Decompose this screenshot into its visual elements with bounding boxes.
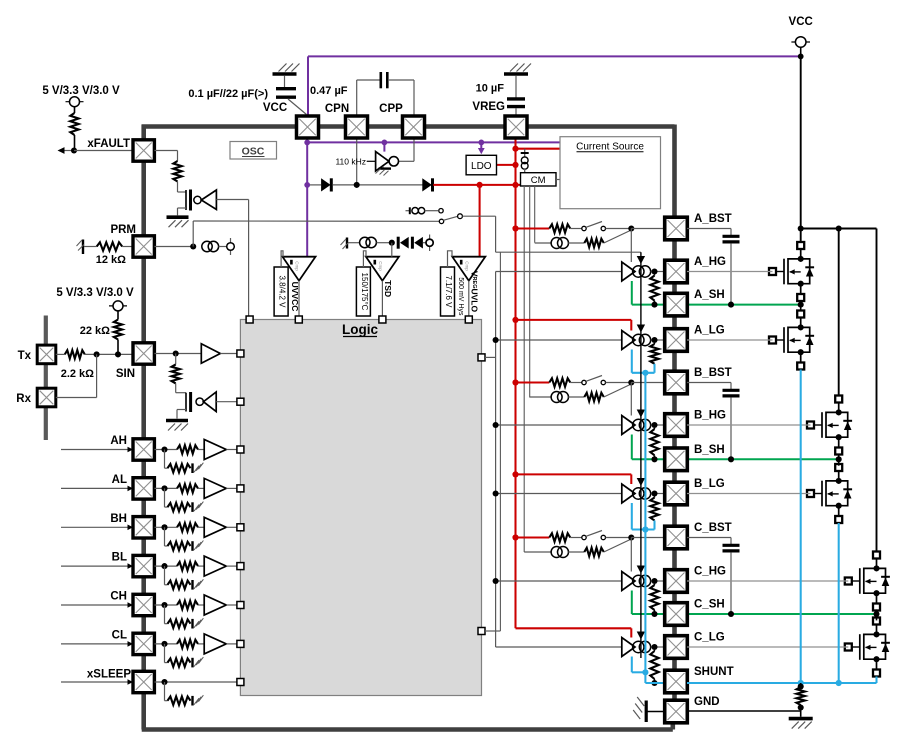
pulldown resistor AL <box>165 488 191 511</box>
wire red feed B_BST <box>516 381 550 383</box>
port BH <box>237 524 244 531</box>
sense resistor <box>797 683 805 705</box>
pulldown resistor CL <box>165 644 191 667</box>
junction xSLEEP <box>161 679 167 685</box>
wire driver input bus <box>495 272 497 648</box>
wire TSD input <box>391 243 393 257</box>
label PRM <box>110 224 136 236</box>
gate driver A_LG <box>622 331 664 350</box>
junction C_SH resistor <box>651 611 657 617</box>
series resistor BH <box>177 523 198 531</box>
junction purple at LDO <box>478 140 484 146</box>
pin B_HG <box>665 414 688 437</box>
wire charge pump row <box>307 184 423 186</box>
wire shunt bus right <box>687 677 877 684</box>
svg-text:xSLEEP: xSLEEP <box>87 669 131 681</box>
wire gate B_LG <box>687 493 811 495</box>
wire purple branch arrow to LDO <box>478 142 485 154</box>
junction input bus C_HG <box>493 578 499 584</box>
junction sense bottom <box>798 704 804 710</box>
input buffer AH <box>198 440 237 460</box>
junction red 1 <box>512 146 518 152</box>
flying capacitor CPN-CPP <box>357 72 414 116</box>
junction B_BST <box>628 379 634 385</box>
label 10uF <box>476 83 505 95</box>
label SHUNT <box>694 666 734 678</box>
wire bootstrap cap top <box>687 229 731 236</box>
junction red UVLO branch <box>477 182 483 188</box>
junction AH <box>161 446 167 452</box>
svg-text:B_SH: B_SH <box>694 444 725 456</box>
wire PRM internal <box>154 246 193 248</box>
wire blue shunt bus <box>645 373 664 683</box>
pin BL <box>133 555 154 576</box>
wire input BH <box>61 525 133 531</box>
VCC decoupling ground <box>273 64 300 75</box>
label A_HG <box>694 256 726 268</box>
junction midpoint B <box>836 456 842 462</box>
label 0.47uF <box>310 85 348 97</box>
wire midpoint C <box>876 609 878 620</box>
svg-text:CPN: CPN <box>325 103 349 115</box>
wire red LDO link <box>497 164 516 166</box>
junction blue B_LG <box>642 526 648 532</box>
series resistor AL <box>177 484 198 492</box>
junction diode row CPN <box>354 182 360 188</box>
svg-text:SHUNT: SHUNT <box>694 666 734 678</box>
pin A_SH <box>665 293 688 316</box>
wire SIN internal <box>154 353 201 355</box>
wire CPN to diode junction <box>356 138 358 185</box>
label CPN <box>325 103 349 115</box>
wire inverter input from logic <box>248 200 250 320</box>
resistor C_BST charge <box>549 533 570 541</box>
port logic right 1 <box>478 354 485 361</box>
wire CM output 1 <box>523 186 525 552</box>
svg-text:BH: BH <box>110 513 127 525</box>
svg-text:Cmp: Cmp <box>464 261 469 271</box>
wire red to VREG UVLO comparator <box>479 185 481 257</box>
svg-text:5 V/3.3 V/3.0 V: 5 V/3.3 V/3.0 V <box>42 85 120 97</box>
label CPP <box>379 103 403 115</box>
capacitor 10uF at VREG <box>507 76 525 116</box>
wire Tx to SIN pin <box>85 353 133 355</box>
label CH <box>110 591 127 603</box>
label Rx <box>16 393 31 405</box>
SIN pulldown transistor Q5 <box>177 392 191 419</box>
wire B_LG blue elbow <box>632 503 655 530</box>
input buffer AL <box>198 478 237 498</box>
svg-text:C_BST: C_BST <box>694 522 732 534</box>
wire input A_HG <box>496 271 622 273</box>
junction SIN pullup <box>115 351 121 357</box>
svg-text:7.1/7.6 V: 7.1/7.6 V <box>444 275 453 308</box>
wire input C_LG <box>496 646 622 648</box>
comparator VREG UVLO <box>441 251 486 320</box>
pin CH <box>133 594 154 615</box>
switch A_BST <box>570 222 629 231</box>
junction drain rail B <box>836 225 842 231</box>
junction red C_BST <box>512 534 518 540</box>
pin BH <box>133 517 154 538</box>
svg-text:2.2 kΩ: 2.2 kΩ <box>61 368 94 380</box>
label B_BST <box>694 367 732 379</box>
svg-text:B_BST: B_BST <box>694 367 732 379</box>
resistor A_LG gate-source <box>650 343 658 364</box>
wire switch to charge rail <box>496 216 641 252</box>
label A_LG <box>694 325 725 337</box>
input buffer CL <box>198 634 237 654</box>
junction C_LG resistor shunt <box>651 680 657 686</box>
port UVVCC output <box>295 316 302 323</box>
arrow charge rail <box>637 566 645 574</box>
port SIN buffer <box>237 350 244 357</box>
label GND <box>694 696 720 708</box>
wire CM to current source B_BST <box>530 396 552 398</box>
comparator UVVCC <box>274 251 315 320</box>
label xSLEEP <box>87 669 131 681</box>
port CL <box>237 640 244 647</box>
label 110 kHz <box>335 157 366 167</box>
label B_LG <box>694 478 725 490</box>
port logic right 2 <box>478 628 485 635</box>
gate driver A_HG <box>622 262 664 281</box>
TSD input ground <box>341 238 349 250</box>
port SIN inverter <box>237 398 244 405</box>
junction red A_BST <box>512 225 518 231</box>
label 2.2 kOhm <box>61 368 94 380</box>
svg-text:AL: AL <box>112 474 127 486</box>
pin Rx <box>37 388 56 407</box>
series resistor CH <box>177 601 198 609</box>
label C_HG <box>694 566 726 578</box>
wire source A blue <box>800 370 802 684</box>
svg-text:xFAULT: xFAULT <box>87 138 130 150</box>
wire gate A_HG <box>687 271 773 273</box>
junction purple diode row <box>304 182 310 188</box>
wire PRM to pin <box>122 246 133 248</box>
svg-text:AH: AH <box>110 435 127 447</box>
pin PRM <box>133 236 154 257</box>
svg-text:110 kHz: 110 kHz <box>335 157 366 167</box>
port TSD output <box>379 316 386 323</box>
resistor B_BST cs <box>568 393 604 401</box>
svg-text:10 µF: 10 µF <box>476 83 505 95</box>
pulldown ground AL <box>193 502 204 512</box>
wire cs slant B_BST <box>604 384 632 397</box>
wire input A_LG <box>496 339 622 341</box>
port logic osc line <box>246 316 253 323</box>
svg-text:Cmp: Cmp <box>378 261 383 271</box>
xFAULT open-drain transistor Q1 <box>178 182 191 216</box>
wire BST feed to driver C_HG <box>630 538 632 572</box>
Tx series resistor 2.2k <box>56 350 85 358</box>
wire sense to GND pin <box>687 705 801 717</box>
wire input CL <box>61 641 133 647</box>
wire C_SH green <box>632 591 877 615</box>
wire midpoint B <box>838 455 840 466</box>
pulldown ground xSLEEP <box>193 695 204 705</box>
pulldown ground AH <box>193 463 204 473</box>
series resistor CL <box>177 640 198 648</box>
current source C_BST <box>551 547 568 558</box>
svg-text:Cmp: Cmp <box>295 261 300 271</box>
diode D1 <box>321 178 331 191</box>
junction input bus B_LG <box>493 490 499 496</box>
junction purple at oscillator <box>382 140 388 146</box>
junction Tx-Rx <box>94 351 100 357</box>
wire gate C_LG <box>687 646 848 648</box>
label C_SH <box>694 599 725 611</box>
wire B_BST to pin <box>631 382 664 384</box>
bootstrap capacitor <box>723 545 740 551</box>
TSD test terminal <box>423 235 433 252</box>
junction BL <box>161 563 167 569</box>
input buffer BH <box>198 517 237 537</box>
pin VREG <box>505 116 527 138</box>
transistor A high-side MOSFET <box>769 242 814 301</box>
pin xSLEEP <box>133 671 154 692</box>
wire BST feed to driver B_HG <box>630 383 632 416</box>
resistor A_BST charge <box>549 224 570 232</box>
svg-text:Logic: Logic <box>342 322 378 337</box>
svg-text:500 mV Hys: 500 mV Hys <box>457 277 464 316</box>
switch C_BST <box>570 531 629 540</box>
wire gate B_HG <box>687 424 811 426</box>
pin xFAULT <box>133 140 154 161</box>
bootstrap capacitor <box>723 390 740 396</box>
wire CPP to oscillator output <box>399 138 414 161</box>
junction purple VCC column <box>304 140 310 146</box>
transistor C low-side MOSFET <box>845 618 890 677</box>
wire A_LG blue elbow <box>632 350 655 373</box>
port xSLEEP <box>237 679 244 686</box>
pin AH <box>133 439 154 460</box>
port AH <box>237 446 244 453</box>
svg-text:22 kΩ: 22 kΩ <box>80 325 110 337</box>
label BL <box>112 552 127 564</box>
label C_BST <box>694 522 732 534</box>
SIN pull-up supply <box>109 301 127 311</box>
wire input xSLEEP <box>61 679 133 685</box>
svg-text:CPP: CPP <box>379 103 403 115</box>
wire xFAULT internal <box>154 151 177 162</box>
resistor B_HG gate-source <box>650 428 658 459</box>
wire port2 link <box>485 630 500 632</box>
junction output A_HG <box>651 268 657 274</box>
junction red B_BST <box>512 379 518 385</box>
label B_HG <box>694 410 726 422</box>
pin CPN <box>346 116 368 138</box>
port CH <box>237 602 244 609</box>
label BH <box>110 513 127 525</box>
wire VCC purple internal vertical <box>306 138 308 257</box>
junction input bus A_LG <box>493 337 499 343</box>
label C_LG <box>694 632 725 644</box>
current source A_BST <box>551 238 568 249</box>
wire aux vertical <box>499 252 501 631</box>
label AL <box>112 474 127 486</box>
wire CM to current source A_BST <box>535 242 552 244</box>
wire input B_HG <box>496 424 622 426</box>
label 22 kOhm <box>80 325 110 337</box>
label AH <box>110 435 127 447</box>
wire red to current source box <box>516 148 561 150</box>
pin B_LG <box>665 482 688 505</box>
wire input BL <box>61 563 133 569</box>
SIN pull-up resistor 22k <box>114 311 122 355</box>
TSD diode pair D3 D4 <box>398 237 423 249</box>
xFAULT pull-up resistor <box>70 107 78 151</box>
pulldown resistor BL <box>165 566 191 589</box>
wire bootstrap cap bottom <box>730 397 732 459</box>
wire input B_LG <box>496 493 622 495</box>
label 5V supply SIN <box>56 287 134 299</box>
label 0.1uF//22uF <box>188 88 268 100</box>
svg-text:B_HG: B_HG <box>694 410 726 422</box>
arrow charge rail <box>637 256 645 264</box>
wire bootstrap cap bottom <box>730 243 732 304</box>
junction sense top <box>798 683 804 689</box>
label A_BST <box>694 213 732 225</box>
resistor C_BST cs <box>568 548 604 556</box>
pin CPP <box>403 116 425 138</box>
wire Rx loop <box>56 354 97 397</box>
series resistor BL <box>177 562 198 570</box>
svg-text:A_BST: A_BST <box>694 213 732 225</box>
wire input AL <box>61 486 133 492</box>
LDO block <box>466 155 496 175</box>
pin CL <box>133 633 154 654</box>
pin VCC <box>297 116 319 138</box>
pin C_SH <box>665 603 688 626</box>
pulldown resistor AH <box>165 450 191 473</box>
svg-text:A_SH: A_SH <box>694 289 725 301</box>
wire source B blue <box>838 523 840 683</box>
svg-text:C_HG: C_HG <box>694 566 726 578</box>
junction midpoint C <box>873 611 879 617</box>
svg-text:SIN: SIN <box>116 368 135 380</box>
junction red 3 <box>512 182 518 188</box>
PRM resistor 12k <box>84 242 122 250</box>
svg-text:12 kΩ: 12 kΩ <box>96 254 126 266</box>
svg-text:CL: CL <box>112 629 127 641</box>
pin Tx <box>37 345 56 364</box>
MCU bus bar <box>44 316 48 441</box>
label VREG <box>472 101 505 113</box>
wire input CH <box>61 602 133 608</box>
port UVLO output <box>465 316 472 323</box>
label B_SH <box>694 444 725 456</box>
wire red feed A_LG <box>516 320 632 331</box>
wire PRM sense up <box>193 221 439 247</box>
junction A_BST <box>628 225 634 231</box>
arrow charge rail <box>637 410 645 418</box>
svg-text:B_LG: B_LG <box>694 478 725 490</box>
svg-text:3.8/4.2 V: 3.8/4.2 V <box>278 275 287 308</box>
wire xSLEEP internal <box>154 681 237 683</box>
junction blue B <box>836 680 842 686</box>
pin A_BST <box>665 217 688 240</box>
junction AL <box>161 485 167 491</box>
svg-text:VCC: VCC <box>789 16 813 28</box>
svg-text:0.1 µF//22 µF(>): 0.1 µF//22 µF(>) <box>188 88 268 100</box>
resistor C_LG gate-source <box>650 650 658 683</box>
pin C_LG <box>665 636 688 659</box>
wire CL internal <box>154 643 177 645</box>
svg-text:5 V/3.3 V/3.0 V: 5 V/3.3 V/3.0 V <box>56 287 134 299</box>
OSC block <box>230 142 277 160</box>
wire charge rail with arrows <box>640 252 642 658</box>
wire B_SH green <box>632 435 839 460</box>
VREG decoupling ground <box>504 64 531 75</box>
port BL <box>237 563 244 570</box>
svg-text:A_HG: A_HG <box>694 256 726 268</box>
junction red B_LG <box>512 471 518 477</box>
oscillator ground <box>376 167 392 176</box>
label Tx <box>18 350 32 362</box>
label VCC pin <box>263 102 287 114</box>
wire A_SH green <box>632 281 801 305</box>
transistor C high-side MOSFET <box>845 552 890 611</box>
xFAULT output arrow <box>58 147 75 154</box>
wire drain feed C <box>876 229 878 553</box>
wire VCC purple horizontal to current source <box>307 141 560 143</box>
wire BST feed to driver A_HG <box>630 229 632 263</box>
wire C_BST to pin <box>631 537 664 539</box>
input buffer CH <box>198 595 237 615</box>
junction SIN <box>173 350 179 356</box>
wire drain feed B <box>838 229 840 397</box>
label A_SH <box>694 289 725 301</box>
transistor A low-side MOSFET <box>769 311 814 370</box>
SIN pulldown resistor <box>172 354 187 393</box>
SIN transistor ground <box>166 421 188 431</box>
resistor A_BST cs <box>568 239 604 247</box>
wire CM output 3 <box>534 186 536 243</box>
junction output C_LG <box>651 644 657 650</box>
junction bootstrap SH <box>728 611 734 617</box>
series resistor AH <box>177 445 198 453</box>
junction red 2 <box>512 162 518 168</box>
bootstrap capacitor <box>723 236 740 242</box>
arrow charge rail <box>637 325 645 333</box>
wire bootstrap cap bottom <box>730 552 732 614</box>
svg-text:CM: CM <box>531 175 546 186</box>
TSD current source <box>348 237 392 247</box>
wire red charge pump output row <box>433 184 520 186</box>
junction CH <box>161 602 167 608</box>
junction output C_HG <box>651 578 657 584</box>
pin SHUNT <box>665 670 688 693</box>
input buffer BL <box>198 556 237 576</box>
wire xFAULT to pin <box>74 150 133 152</box>
junction output B_LG <box>651 490 657 496</box>
svg-text:Tx: Tx <box>18 350 32 362</box>
svg-text:LDO: LDO <box>471 161 492 172</box>
wire AL internal <box>154 487 177 489</box>
svg-text:C_SH: C_SH <box>694 599 725 611</box>
resistor B_LG gate-source <box>650 496 658 520</box>
wire C_LG blue elbow <box>632 657 646 673</box>
pin GND <box>665 700 688 723</box>
wire VREG red main vertical <box>514 138 516 628</box>
svg-text:GND: GND <box>694 696 720 708</box>
gate driver C_LG <box>622 638 664 657</box>
wire drain feed A <box>800 229 802 244</box>
pin B_SH <box>665 448 688 471</box>
junction output A_LG <box>651 337 657 343</box>
